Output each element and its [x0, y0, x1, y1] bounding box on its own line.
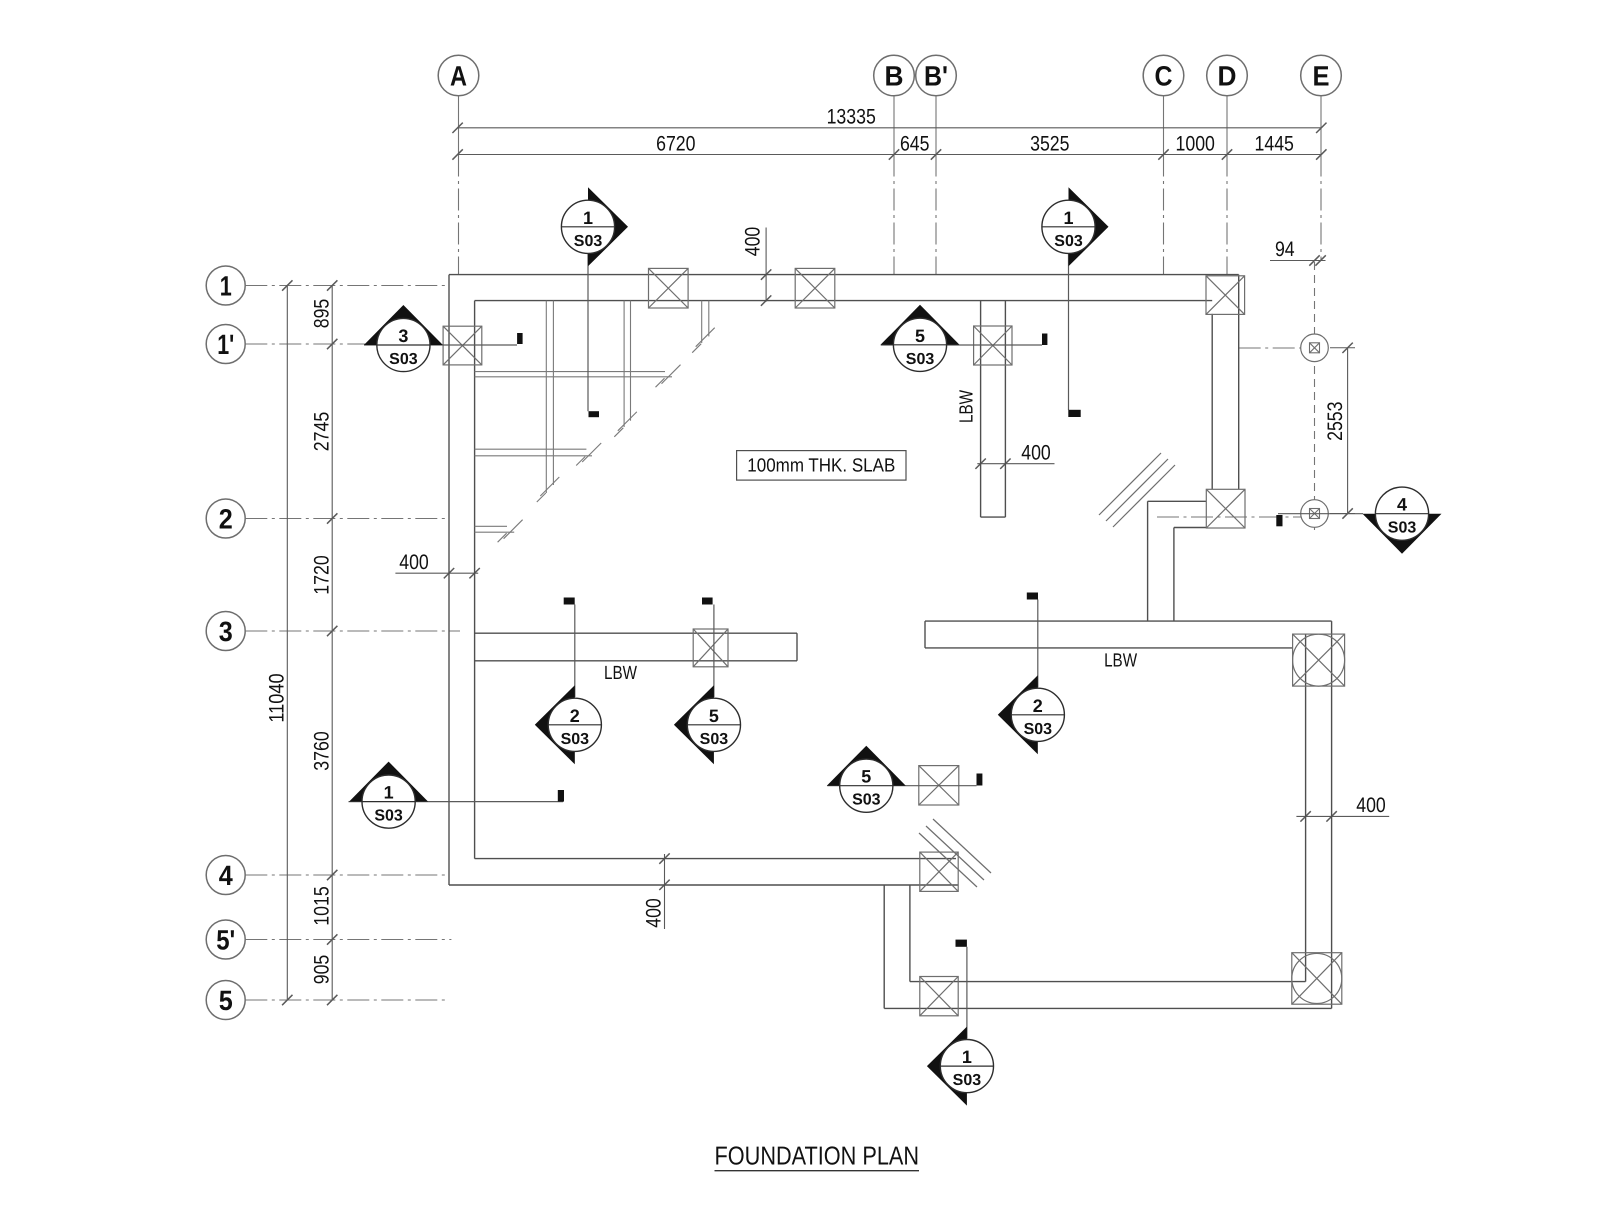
dim text 11040 — [265, 673, 288, 722]
svg-text:11040: 11040 — [265, 673, 288, 722]
svg-text:5: 5 — [219, 985, 233, 1016]
dim text 645 — [900, 133, 930, 156]
section line 1 nearC stem — [1068, 254, 1080, 417]
svg-text:1015: 1015 — [310, 886, 333, 925]
grid line B — [893, 155, 895, 275]
beam V1 — [537, 301, 560, 502]
svg-text:1: 1 — [384, 783, 394, 803]
svg-text:2: 2 — [1033, 696, 1043, 716]
dim line 11040 — [282, 280, 292, 1005]
svg-text:4: 4 — [1397, 495, 1407, 515]
column bottom footing — [920, 977, 958, 1016]
svg-text:645: 645 — [900, 133, 930, 156]
label 100mm THK. SLAB box — [737, 451, 906, 481]
grid line B stem — [893, 96, 895, 155]
svg-text:6720: 6720 — [656, 133, 695, 156]
grid line D — [1226, 155, 1228, 275]
wall D2 stub right — [1173, 528, 1175, 622]
svg-text:B': B' — [924, 61, 948, 92]
section line 2 left stem — [564, 598, 575, 698]
grid line E stem — [1320, 96, 1322, 155]
wall LBW left bottom — [474, 660, 797, 662]
svg-text:400: 400 — [1021, 441, 1051, 464]
svg-text:5: 5 — [709, 706, 719, 726]
wall D2 stub conn bottom — [1174, 527, 1206, 529]
column grid1' footing — [443, 326, 482, 365]
svg-text:S03: S03 — [953, 1072, 982, 1089]
dim line 400 left wall — [395, 568, 479, 578]
svg-text:B: B — [885, 61, 904, 92]
grid bubble 1&#39; — [206, 325, 245, 364]
svg-text:4: 4 — [219, 860, 233, 891]
section marker 4/S03 — [1363, 487, 1442, 554]
svg-text:400: 400 — [1356, 794, 1386, 817]
svg-text:5': 5' — [216, 925, 235, 956]
dim text 400 bottom — [643, 898, 666, 928]
section line 5 left stem — [702, 598, 714, 698]
svg-text:2553: 2553 — [1324, 401, 1347, 440]
section marker 5/S03 top — [881, 305, 960, 372]
svg-text:1': 1' — [217, 329, 234, 360]
svg-text:1000: 1000 — [1176, 133, 1215, 156]
section line 5 mid stem — [827, 774, 982, 786]
wall step inner — [909, 885, 911, 982]
svg-text:2745: 2745 — [310, 412, 333, 451]
dim text 1015 — [310, 886, 333, 925]
post E1' — [1301, 334, 1329, 362]
svg-text:E: E — [1313, 61, 1330, 92]
section line 5 top stem — [881, 334, 1048, 346]
dim line 400 top wall — [761, 228, 771, 306]
svg-text:S03: S03 — [389, 351, 418, 368]
label LBW right — [1104, 651, 1137, 672]
wall top outer — [449, 274, 1239, 276]
svg-text:400: 400 — [742, 227, 765, 257]
column grid3 footing — [693, 629, 728, 667]
wall step outer — [883, 885, 885, 1008]
wall LBW left cap — [796, 633, 798, 661]
section line 1 top stem — [588, 254, 599, 417]
column top-mid-2 footing — [795, 268, 835, 308]
dim text 400 right — [1356, 794, 1386, 817]
wall bottom outer — [884, 1007, 1331, 1009]
title FOUNDATION PLAN — [715, 1141, 920, 1171]
grid bubble 3 — [206, 612, 245, 651]
grid line 1 — [245, 285, 449, 287]
wall D2 stub left — [1147, 501, 1149, 621]
column D1 footing — [1206, 276, 1245, 315]
beam V3 — [692, 301, 715, 353]
svg-text:94: 94 — [1275, 238, 1295, 261]
hatch near D2 column — [1099, 453, 1175, 527]
wall grid D right — [1238, 275, 1240, 490]
svg-text:3: 3 — [398, 326, 408, 346]
hatch near interior column — [919, 819, 991, 887]
svg-text:S03: S03 — [700, 731, 729, 748]
svg-text:D: D — [1218, 61, 1237, 92]
wall left inner — [474, 301, 476, 859]
grid line A stem — [458, 96, 460, 155]
svg-text:400: 400 — [643, 898, 666, 928]
grid line 4 — [245, 874, 449, 876]
column E5 footing — [1292, 953, 1342, 1005]
svg-text:S03: S03 — [852, 792, 881, 809]
svg-text:3525: 3525 — [1030, 133, 1069, 156]
svg-text:1: 1 — [220, 271, 232, 302]
dim line 94 — [1270, 255, 1326, 265]
dim text 895 — [310, 299, 333, 329]
svg-text:1: 1 — [1063, 208, 1073, 228]
grid bubble C — [1143, 55, 1184, 96]
grid bubble B — [874, 55, 915, 96]
svg-text:895: 895 — [310, 299, 333, 329]
dim text 13335 — [827, 106, 876, 129]
grid bubble 2 — [206, 499, 245, 538]
svg-text:5: 5 — [861, 767, 871, 787]
dim text 2745 — [310, 412, 333, 451]
svg-text:S03: S03 — [561, 731, 590, 748]
svg-text:1720: 1720 — [310, 555, 333, 594]
dim text 905 — [310, 955, 333, 985]
column B' footing — [974, 326, 1012, 365]
grid line B&#39; stem — [935, 96, 937, 155]
beam H3 — [475, 520, 523, 543]
svg-text:1: 1 — [962, 1047, 972, 1067]
column interior footing — [920, 852, 958, 891]
svg-text:2: 2 — [219, 504, 233, 535]
wall bottom-left outer — [449, 884, 958, 886]
beam H2 — [475, 443, 602, 466]
section marker 5/S03 left — [674, 685, 741, 764]
wall grid D left — [1211, 314, 1213, 489]
grid line D stem — [1226, 96, 1228, 155]
svg-text:S03: S03 — [906, 351, 935, 368]
dim text 3760 — [310, 731, 333, 770]
dim line 6720/645/3525/1000/1445 — [452, 149, 1326, 159]
svg-text:100mm THK. SLAB: 100mm THK. SLAB — [747, 456, 895, 477]
dim text 400 left — [399, 551, 429, 574]
grid bubble A — [438, 55, 479, 96]
dim line 400 bottom wall — [659, 853, 669, 929]
grid line B&#39; — [935, 155, 937, 275]
wall LBW right bottom — [925, 647, 1293, 649]
dim text 400 top — [742, 227, 765, 257]
dim text 400 B'C — [1021, 441, 1051, 464]
wall bottom inner — [910, 981, 1306, 983]
svg-text:1: 1 — [583, 208, 593, 228]
wall D2 stub conn top — [1148, 500, 1206, 502]
svg-text:2: 2 — [570, 706, 580, 726]
beam V2 — [614, 301, 637, 437]
svg-text:S03: S03 — [1388, 520, 1417, 537]
wall LBW right top — [925, 620, 1332, 622]
grid bubble 4 — [206, 856, 245, 895]
wall left outer — [448, 275, 450, 885]
wall LBW right cap — [924, 621, 926, 648]
column D2 footing — [1206, 489, 1245, 528]
wall right inner — [1305, 634, 1307, 982]
section marker 1/S03 top-right — [1042, 187, 1109, 266]
dim text 6720 — [656, 133, 695, 156]
section marker 3/S03 — [364, 305, 443, 372]
grid line E — [1320, 155, 1322, 261]
dim line 400 right wall — [1296, 811, 1389, 821]
grid bubble D — [1207, 55, 1248, 96]
dim line 895/2745/1720/3760/1015/905 — [327, 280, 337, 1005]
wall bottom-left inner — [475, 858, 956, 860]
grid bubble E — [1301, 55, 1342, 96]
svg-text:5: 5 — [915, 326, 925, 346]
dim text 94 — [1275, 238, 1295, 261]
section marker 2/S03 right — [998, 675, 1065, 754]
grid bubble 5 — [206, 981, 245, 1020]
svg-text:3: 3 — [219, 616, 233, 647]
grid line 1&#39; — [245, 343, 441, 345]
grid line 2 — [245, 518, 449, 520]
wall B'C right — [1004, 301, 1006, 517]
column E3 footing — [1293, 634, 1345, 686]
svg-text:1445: 1445 — [1255, 133, 1294, 156]
dim line 13335 — [452, 123, 1326, 133]
svg-text:LBW: LBW — [1104, 651, 1137, 672]
wall B'C left — [980, 301, 982, 517]
grid line 2 right segment — [1157, 516, 1302, 518]
svg-text:3760: 3760 — [310, 731, 333, 770]
svg-text:S03: S03 — [1024, 721, 1053, 738]
dim text 2553 — [1324, 401, 1347, 440]
beam H1 — [475, 365, 681, 388]
grid line 1' right segment — [1239, 347, 1301, 349]
svg-text:S03: S03 — [374, 808, 403, 825]
section line 4 stem — [1276, 514, 1363, 527]
dim text 1000 — [1176, 133, 1215, 156]
svg-text:905: 905 — [310, 955, 333, 985]
section marker 1/S03 bottom — [927, 1027, 994, 1106]
dim text 1445 — [1255, 133, 1294, 156]
label LBW left — [604, 663, 637, 684]
svg-text:C: C — [1155, 61, 1173, 92]
post E2 — [1301, 500, 1329, 528]
section marker 5/S03 mid — [827, 746, 906, 813]
grid line C stem — [1163, 96, 1165, 155]
svg-text:S03: S03 — [1054, 233, 1083, 250]
section marker 1/S03 mid — [349, 762, 428, 829]
grid line E post axis — [1314, 262, 1316, 530]
grid line 3 — [245, 630, 460, 632]
wall right outer — [1331, 621, 1333, 1008]
dim text 1720 — [310, 555, 333, 594]
grid line 5&#39; — [245, 939, 451, 941]
wall LBW left top — [474, 632, 797, 634]
section line 1 bottom stem — [956, 940, 967, 1039]
grid bubble B&#39; — [916, 55, 957, 96]
svg-text:LBW: LBW — [604, 663, 637, 684]
svg-text:S03: S03 — [574, 233, 603, 250]
grid bubble 5&#39; — [206, 920, 245, 959]
section marker 1/S03 top-left — [561, 187, 628, 266]
grid bubble 1 — [206, 266, 245, 305]
wall B'C cap — [981, 516, 1006, 518]
wall top inner — [475, 300, 1213, 302]
svg-text:400: 400 — [399, 551, 429, 574]
svg-text:FOUNDATION PLAN: FOUNDATION PLAN — [715, 1141, 920, 1171]
section line 2 right stem — [1027, 593, 1038, 688]
dim line 400 B'C wall — [975, 459, 1054, 469]
svg-text:LBW: LBW — [957, 390, 978, 423]
column top-mid-1 footing — [649, 268, 689, 308]
grid line 5 — [245, 999, 449, 1001]
section line 1 mid stem — [349, 790, 565, 802]
svg-text:A: A — [450, 61, 467, 92]
column 5S03 footing — [919, 766, 959, 805]
grid line A — [458, 155, 460, 275]
svg-text:13335: 13335 — [827, 106, 876, 129]
label LBW vertical — [957, 390, 978, 423]
section marker 2/S03 left — [535, 685, 602, 764]
section line 3 stem — [364, 333, 523, 345]
grid line C — [1163, 155, 1165, 275]
dim line 2553 — [1330, 343, 1355, 519]
dim text 3525 — [1030, 133, 1069, 156]
